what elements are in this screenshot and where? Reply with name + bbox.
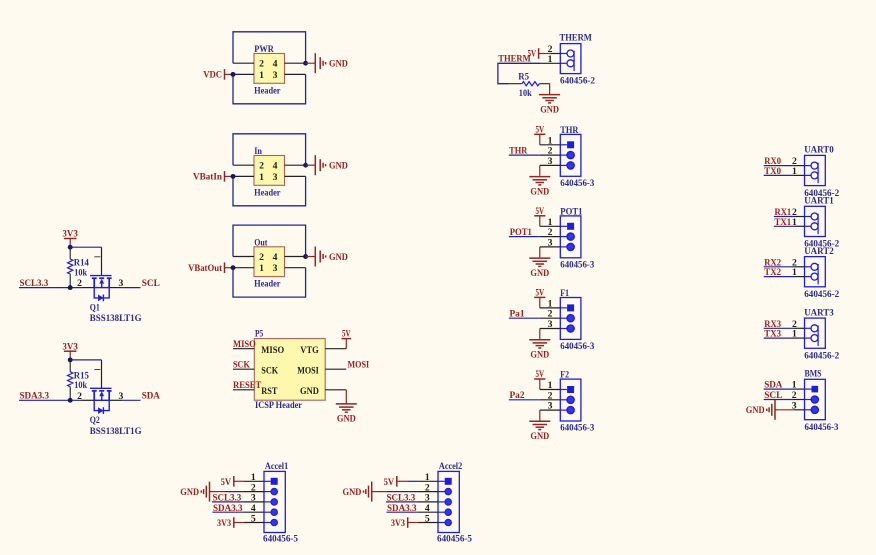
connector Out header body [254, 247, 285, 277]
wire THR [509, 154, 540, 156]
ground GND P5 [336, 403, 357, 405]
power port 3V3 for Q2 [64, 350, 77, 352]
pin 1 (gate) of Q2 [101, 360, 103, 388]
ground GND Accel2 [371, 482, 373, 502]
pin 2 of PWR [233, 62, 254, 64]
svg-text:SDA: SDA [142, 391, 160, 402]
wire gate Q2 [70, 359, 101, 361]
wire loop bottom (Out header pins 1-3) [233, 268, 306, 297]
pin 3 of F2 [567, 407, 574, 414]
svg-text:10k: 10k [74, 380, 87, 391]
ground GND Accel1 [209, 482, 211, 502]
wire to gnd [306, 256, 316, 258]
pin 3 of Out [285, 267, 306, 269]
wire GND of P5 [345, 390, 347, 404]
svg-text:4: 4 [273, 59, 278, 70]
wire loop top (Out header pins 2-4) [233, 225, 306, 256]
wire RX0 [764, 165, 795, 167]
connector Accel1 640456-5 [264, 471, 285, 532]
svg-text:GND: GND [180, 487, 199, 498]
connector P5 ICSP header body [254, 339, 325, 401]
svg-text:5V: 5V [536, 206, 545, 217]
power port 5V at Accel1 [233, 476, 235, 487]
svg-text:VBatIn: VBatIn [193, 172, 223, 183]
connector THR 640456-3 [560, 134, 581, 176]
wire gate Q1 [70, 246, 101, 248]
power port 5V at POT1 [534, 215, 545, 217]
svg-text:GND: GND [530, 186, 549, 197]
pin 1 of BMS [812, 386, 819, 393]
svg-text:MISO: MISO [261, 345, 284, 356]
ground GND F2 [529, 420, 550, 422]
wire TX2 [764, 276, 795, 278]
wire THERM net [540, 62, 560, 64]
transistor Q2 BSS138LT1G [90, 388, 112, 414]
wire THR pin 3 to gnd [540, 164, 561, 166]
power port 5V at F2 [534, 378, 545, 380]
junction gnd [303, 61, 308, 66]
pin 2 of F1 [567, 315, 574, 322]
wire RX1 [774, 216, 795, 218]
pin 2 of In [233, 164, 254, 166]
pin 1 of Accel1 [271, 478, 278, 485]
connector UART0 640456-2 [805, 155, 826, 185]
junction bottom Q1 [68, 285, 73, 290]
svg-text:THERM: THERM [560, 32, 592, 43]
svg-text:RESET: RESET [233, 380, 262, 391]
svg-text:640456-5: 640456-5 [263, 533, 298, 544]
pin 3 of POT1 [567, 243, 574, 250]
wire 5V to POT1 pin 1 [539, 216, 541, 227]
ground GND F1 [529, 339, 550, 341]
power port 5V at VTG [342, 338, 352, 340]
svg-text:Q1: Q1 [90, 303, 100, 314]
svg-text:2: 2 [259, 59, 264, 70]
junction gnd [303, 254, 308, 259]
wire 5V to THERM pin 2 [539, 53, 551, 55]
wire R5 to gnd [549, 83, 551, 94]
pin 2 of BMS [811, 396, 818, 403]
svg-text:ICSP Header: ICSP Header [255, 400, 303, 411]
svg-text:10k: 10k [519, 88, 532, 99]
wire gnd Accel1 [210, 491, 225, 493]
ground GND THR [529, 176, 550, 178]
wire loop bottom (In header pins 1-3) [233, 176, 306, 205]
resistor R15 [69, 360, 71, 372]
wire SCL [122, 287, 141, 289]
svg-text:MISO: MISO [233, 339, 256, 350]
resistor R5 [509, 83, 522, 85]
svg-text:GND: GND [530, 350, 549, 361]
svg-text:VTG: VTG [300, 345, 319, 356]
pin 2 of UART2 [805, 266, 812, 268]
wire 5V to F1 pin 1 [539, 297, 541, 308]
connector UART2 640456-2 [805, 257, 826, 287]
svg-text:5V: 5V [536, 288, 545, 299]
svg-text:MOSI: MOSI [348, 360, 370, 371]
connector THERM [560, 44, 581, 74]
svg-text:2: 2 [259, 161, 264, 172]
svg-text:GND: GND [329, 59, 348, 70]
wire 3V3 Accel1 [234, 522, 245, 524]
svg-text:5V: 5V [384, 477, 395, 488]
pin MOSI of P5 [325, 368, 346, 370]
wire POT1 pin 3 to gnd [540, 246, 561, 248]
power port 5V at F1 [534, 296, 545, 298]
svg-text:1: 1 [259, 172, 264, 183]
wire VBatOut to header [225, 267, 234, 269]
pin 2 of UART0 [805, 165, 812, 167]
ground GND 1 [314, 53, 316, 73]
wire VDC to header [225, 73, 234, 75]
pin 3 of PWR [285, 73, 306, 75]
svg-text:640456-3: 640456-3 [560, 341, 594, 352]
wire VBatIn to header [225, 175, 234, 177]
junction VBatIn [231, 174, 236, 179]
junction VBatOut [231, 265, 236, 270]
pin 5 of Accel2 [445, 519, 451, 525]
wire 5V Accel2 [397, 480, 408, 482]
power port VDC [224, 69, 226, 80]
pin 1 of UART2 [805, 276, 812, 278]
svg-text:TX0: TX0 [764, 166, 781, 177]
svg-text:GND: GND [530, 431, 549, 442]
svg-text:640456-5: 640456-5 [437, 533, 472, 544]
pin 1 of F1 [567, 304, 574, 311]
svg-text:Accel2: Accel2 [439, 461, 462, 472]
pin RST of P5 [233, 389, 254, 391]
wire SDA3.3 Accel1 [213, 511, 245, 513]
pin 4 of Out [285, 256, 306, 258]
pin 2 of Q1 [82, 287, 94, 289]
pin 2 of Out [233, 256, 254, 258]
svg-text:3: 3 [273, 263, 278, 274]
svg-text:GND: GND [530, 268, 549, 279]
svg-text:4: 4 [273, 252, 278, 263]
wire loop bottom (PWR header pins 1-3) [233, 74, 306, 103]
svg-text:1: 1 [792, 329, 797, 340]
pin 2 of Q2 [82, 399, 94, 401]
wire SCL3.3 Accel1 [212, 501, 244, 503]
svg-text:THR: THR [560, 125, 579, 136]
svg-text:4: 4 [273, 161, 278, 172]
pin 2 of Accel1 [271, 488, 277, 494]
power port 5V at Accel2 [396, 476, 398, 487]
connector BMS 640456-3 [805, 379, 826, 419]
pin 1 of F2 [567, 386, 574, 393]
svg-text:3V3: 3V3 [391, 518, 405, 529]
svg-text:Accel1: Accel1 [265, 461, 288, 472]
connector In header body [254, 156, 285, 186]
svg-text:Header: Header [254, 85, 281, 96]
pin 1 of In [233, 175, 254, 177]
svg-text:BSS138LT1G: BSS138LT1G [90, 426, 142, 437]
wire TX1 [774, 225, 795, 227]
wire RX2 [764, 266, 795, 268]
pin 4 of PWR [285, 62, 306, 64]
wire to gnd [306, 62, 316, 64]
junction top Q2 [68, 357, 73, 362]
pin 3 of Accel1 [271, 499, 277, 505]
svg-text:PWR: PWR [254, 44, 274, 55]
svg-text:640456-3: 640456-3 [560, 178, 594, 189]
svg-text:5V: 5V [536, 369, 545, 380]
wire Pa1 [509, 317, 540, 319]
wire SDA3.3 [19, 399, 82, 401]
svg-text:3: 3 [273, 172, 278, 183]
pin 1 of UART3 [805, 337, 812, 339]
wire SCL3.3 [19, 287, 82, 289]
svg-text:UART0: UART0 [804, 145, 834, 156]
ground GND BMS [774, 400, 776, 420]
svg-text:GND: GND [746, 405, 765, 416]
wire 5V to F2 pin 1 [539, 379, 541, 390]
pin 2 of F2 [567, 396, 574, 403]
svg-text:1: 1 [792, 166, 797, 177]
connector UART1 640456-2 [805, 206, 826, 236]
svg-text:GND: GND [329, 252, 348, 263]
wire F2 pin 3 to gnd [540, 409, 561, 411]
svg-text:2: 2 [77, 391, 82, 402]
pin 1 of UART1 [805, 225, 812, 227]
pin 3 of In [285, 175, 306, 177]
pin 3 of THR [567, 162, 574, 169]
power port 5V at THR [534, 133, 545, 135]
svg-text:3: 3 [273, 70, 278, 81]
junction VDC [231, 72, 236, 77]
pin 1 of PWR [233, 73, 254, 75]
transistor Q1 BSS138LT1G [90, 276, 112, 302]
junction top Q1 [68, 245, 73, 250]
pin GND of P5 [325, 389, 346, 391]
wire SCL [764, 399, 795, 401]
power port VBatOut [224, 262, 226, 273]
pin 1 of POT1 [567, 223, 574, 230]
wire loop top (In header pins 2-4) [233, 134, 306, 165]
svg-text:UART3: UART3 [804, 307, 834, 318]
svg-text:TX1: TX1 [775, 217, 792, 228]
pin 3 of Q2 [109, 399, 122, 401]
power port 3V3 for Q1 [64, 238, 77, 240]
svg-text:640456-2: 640456-2 [560, 76, 595, 87]
connector PWR header body [254, 54, 285, 84]
svg-text:F2: F2 [560, 370, 569, 381]
pin 3 of Accel2 [445, 499, 451, 505]
svg-text:640456-2: 640456-2 [804, 351, 839, 362]
svg-text:UART1: UART1 [804, 196, 834, 207]
pin 2 of UART3 [805, 327, 812, 329]
svg-text:GND: GND [329, 161, 348, 172]
svg-text:5V: 5V [536, 124, 545, 135]
wire SCL3.3 Accel2 [386, 501, 418, 503]
svg-text:5V: 5V [342, 329, 351, 340]
junction gnd [303, 163, 308, 168]
connector F2 640456-3 [560, 379, 581, 421]
svg-text:5V: 5V [221, 477, 232, 488]
svg-text:POT1: POT1 [560, 206, 582, 217]
svg-text:1: 1 [792, 217, 797, 228]
svg-text:3V3: 3V3 [62, 341, 78, 352]
svg-text:VBatOut: VBatOut [188, 263, 223, 274]
svg-text:1: 1 [792, 267, 797, 278]
svg-text:SCK: SCK [261, 366, 278, 377]
connector UART3 640456-2 [805, 318, 826, 348]
wire F1 pin 3 to gnd [540, 328, 561, 330]
svg-text:GND: GND [343, 487, 362, 498]
svg-text:R5: R5 [518, 71, 529, 82]
pin VTG of P5 [325, 348, 346, 350]
svg-text:BSS138LT1G: BSS138LT1G [90, 313, 142, 324]
svg-text:1: 1 [259, 70, 264, 81]
svg-text:UART2: UART2 [804, 246, 834, 257]
svg-text:640456-3: 640456-3 [805, 422, 839, 433]
connector POT1 640456-3 [560, 216, 581, 258]
pin MISO of P5 [233, 348, 254, 350]
pin 3 of F1 [567, 325, 574, 332]
svg-text:2: 2 [259, 252, 264, 263]
svg-text:10k: 10k [74, 268, 87, 279]
ground GND THERM [539, 94, 560, 96]
pin 2 of UART1 [805, 216, 812, 218]
wire TX3 [764, 337, 795, 339]
wire loop top (PWR header pins 2-4) [233, 32, 306, 63]
wire 3V3 Accel2 [408, 522, 419, 524]
wire TX0 [764, 174, 795, 176]
svg-text:Out: Out [254, 237, 268, 248]
svg-text:Header: Header [254, 279, 281, 290]
svg-text:TX3: TX3 [764, 329, 781, 340]
pin 2 of THERM [560, 53, 567, 55]
wire SDA [764, 388, 795, 390]
pin 3 of BMS [811, 406, 818, 413]
ground GND POT1 [529, 257, 550, 259]
power port 3V3 at Accel1 [233, 517, 235, 528]
power port VBatIn [224, 171, 226, 182]
connector Accel2 640456-5 [438, 471, 459, 532]
svg-text:VDC: VDC [203, 70, 222, 81]
svg-text:3V3: 3V3 [62, 229, 78, 240]
svg-text:Header: Header [254, 187, 281, 198]
wire Pa2 [509, 399, 540, 401]
svg-text:MOSI: MOSI [297, 366, 319, 377]
power port 3V3 at Accel2 [407, 517, 409, 528]
svg-text:2: 2 [77, 278, 82, 289]
svg-text:640456-3: 640456-3 [560, 259, 594, 270]
wire SDA [122, 399, 141, 401]
svg-text:GND: GND [300, 386, 319, 397]
pin 2 of POT1 [567, 233, 574, 240]
pin 2 of THR [567, 152, 574, 159]
pin 1 of Accel2 [445, 478, 452, 485]
pin 5 of Accel1 [271, 519, 277, 525]
wire to gnd [306, 164, 316, 166]
wire 5V to THR pin 1 [539, 134, 541, 145]
resistor R14 [69, 247, 71, 259]
pin 1 of THR [567, 141, 574, 148]
svg-text:3V3: 3V3 [217, 518, 231, 529]
svg-text:640456-2: 640456-2 [804, 289, 839, 300]
pin 1 of THERM [560, 62, 567, 64]
ground GND 2 [314, 155, 316, 175]
svg-text:640456-3: 640456-3 [560, 423, 594, 434]
pin 2 of Accel2 [445, 488, 451, 494]
wire RX3 [764, 327, 795, 329]
svg-text:Q2: Q2 [90, 415, 100, 426]
ground GND 3 [314, 247, 316, 267]
svg-text:BMS: BMS [805, 369, 822, 380]
pin 1 (gate) of Q1 [101, 247, 103, 275]
power port 5V at THERM [538, 48, 540, 59]
svg-text:GND: GND [337, 414, 356, 425]
wire gnd Accel2 [372, 491, 387, 493]
pin SCK of P5 [233, 368, 254, 370]
svg-text:SCK: SCK [233, 360, 250, 371]
pin 3 of Q1 [109, 287, 122, 289]
pin 1 of UART0 [805, 174, 812, 176]
svg-text:RST: RST [261, 386, 278, 397]
svg-text:SCL: SCL [142, 278, 161, 289]
wire gnd to BMS pin 3 [775, 409, 795, 411]
svg-text:TX2: TX2 [764, 267, 781, 278]
wire 5V Accel1 [234, 480, 245, 482]
pin 1 of Out [233, 267, 254, 269]
wire POT1 [509, 236, 540, 238]
pin 4 of Accel2 [445, 509, 451, 515]
svg-text:F1: F1 [560, 288, 569, 299]
svg-text:GND: GND [540, 104, 559, 115]
pin 4 of In [285, 164, 306, 166]
connector F1 640456-3 [560, 298, 581, 340]
pin 4 of Accel1 [271, 509, 277, 515]
svg-text:P5: P5 [255, 329, 263, 340]
svg-text:In: In [254, 146, 262, 157]
junction bottom Q2 [68, 398, 73, 403]
svg-text:1: 1 [259, 263, 264, 274]
wire SDA3.3 Accel2 [387, 511, 419, 513]
